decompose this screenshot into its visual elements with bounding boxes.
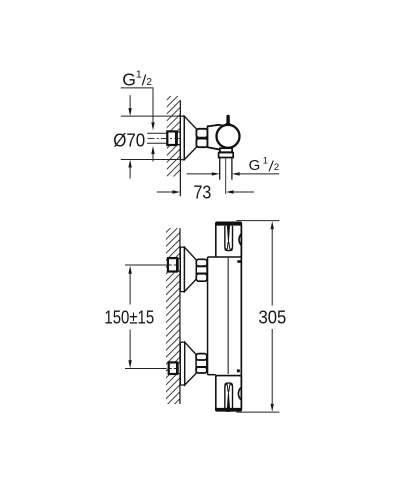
supply pipe behind wall bbox=[147, 132, 167, 134]
top handle groove bbox=[225, 226, 233, 251]
svg-text:1: 1 bbox=[136, 69, 142, 81]
wall face line (bottom drawing) bbox=[179, 228, 181, 404]
svg-text:1: 1 bbox=[263, 156, 268, 167]
small detail mark lower bbox=[237, 369, 240, 372]
small detail mark upper bbox=[237, 260, 240, 263]
svg-text:G: G bbox=[122, 69, 136, 89]
handle circle (side view) bbox=[217, 125, 240, 148]
lever on top bbox=[226, 115, 229, 125]
bottom handle bbox=[216, 376, 242, 411]
dimension Ø70 arrows bbox=[129, 95, 131, 108]
bottom handle side button bbox=[238, 388, 240, 400]
upper wall fitting bbox=[168, 258, 177, 271]
svg-text:G: G bbox=[249, 157, 261, 174]
wall hatching (front view, bottom drawing) bbox=[166, 228, 180, 404]
outlet collar bbox=[220, 148, 232, 152]
dimension 73 bbox=[157, 191, 173, 193]
leader G1/2 to fitting bbox=[121, 88, 153, 123]
lower escutcheon base bbox=[180, 342, 184, 385]
svg-text:305: 305 bbox=[259, 308, 287, 328]
svg-text:Ø70: Ø70 bbox=[113, 130, 145, 150]
upper escutcheon cone bbox=[184, 247, 196, 291]
dimension Ø70 extension lines bbox=[121, 115, 184, 117]
fitting centerline bbox=[148, 137, 196, 139]
dimension 305 bbox=[271, 221, 274, 229]
hex nut (side view) bbox=[196, 129, 207, 138]
dim 150 extension line bottom bbox=[125, 368, 167, 370]
wall face line (top drawing) bbox=[179, 100, 181, 196]
escutcheon base (side view) bbox=[180, 116, 184, 159]
escutcheon cone (side view) bbox=[184, 116, 196, 159]
body inner line bbox=[227, 258, 229, 374]
dimension G1/2 outlet arrows bbox=[187, 173, 213, 175]
G1/2 wall fitting (side view) bbox=[167, 131, 176, 145]
svg-text:2: 2 bbox=[146, 76, 152, 88]
body left edge bbox=[207, 257, 209, 375]
outlet pipe bbox=[219, 158, 221, 180]
valve body (side view) bbox=[208, 125, 229, 150]
dim 150 extension line top bbox=[125, 264, 167, 266]
arrow up at fitting bottom bbox=[151, 146, 154, 154]
dimension 150±15 bbox=[128, 266, 131, 274]
body top shoulder bbox=[208, 256, 216, 258]
wall hatching (side view, top drawing) bbox=[167, 96, 181, 177]
body bottom shoulder bbox=[208, 374, 216, 376]
top handle bbox=[216, 222, 242, 257]
svg-text:2: 2 bbox=[274, 162, 279, 173]
body right edge bbox=[240, 225, 242, 409]
svg-text:73: 73 bbox=[194, 183, 212, 203]
lower wall fitting bbox=[169, 362, 177, 374]
bottom handle groove bbox=[225, 383, 233, 408]
lower hex nut bbox=[196, 360, 207, 367]
svg-text:150±15: 150±15 bbox=[104, 307, 154, 327]
upper hex nut bbox=[196, 267, 207, 274]
lower escutcheon cone bbox=[185, 342, 196, 385]
top handle side button bbox=[239, 234, 241, 246]
outlet centerline bbox=[225, 158, 227, 194]
dimension 305 extension lines bbox=[236, 220, 279, 222]
upper escutcheon base bbox=[180, 247, 184, 291]
